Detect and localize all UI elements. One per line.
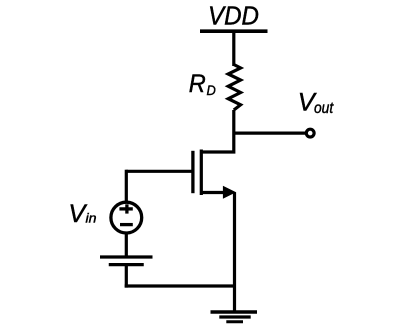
svg-text:in: in: [86, 211, 97, 226]
wire VDD rail to resistor top: [232, 31, 235, 66]
wire bottom rail: [125, 284, 235, 287]
voltage source Vin circle: [111, 202, 142, 233]
wire Vin top: [125, 170, 128, 203]
transistor M1 source arrow: [223, 186, 236, 199]
battery plate long: [100, 255, 153, 258]
net label Vin: [68, 200, 96, 228]
voltage source plus sign: [119, 204, 132, 213]
node Vout output terminal: [306, 129, 314, 137]
svg-text:R: R: [189, 70, 206, 98]
label RD: [189, 70, 216, 98]
voltage source minus sign: [120, 223, 133, 226]
transistor M1 source lead: [201, 191, 226, 194]
battery plate short: [109, 263, 144, 266]
transistor M1 NMOS gate bar: [191, 151, 194, 193]
power rail VDD: [200, 29, 268, 33]
wire Vin bottom to battery: [125, 233, 128, 257]
net label Vout: [298, 89, 334, 117]
svg-text:out: out: [314, 100, 334, 117]
svg-text:VDD: VDD: [208, 1, 259, 31]
net label VDD: [208, 1, 259, 31]
wire gate lead: [126, 170, 191, 173]
wire output node to terminal: [234, 132, 306, 135]
wire source to ground: [233, 192, 236, 311]
transistor M1 NMOS channel bar: [200, 150, 203, 196]
wire resistor bottom to drain corner: [201, 110, 234, 152]
wire battery to bottom rail: [125, 265, 128, 288]
ground: [211, 312, 258, 322]
svg-text:D: D: [207, 82, 216, 98]
resistor RD: [228, 65, 240, 111]
